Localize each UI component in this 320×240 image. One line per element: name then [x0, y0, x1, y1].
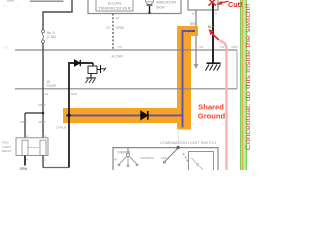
- svg-text:B-CAN: B-CAN: [108, 2, 122, 6]
- svg-text:OFF: OFF: [161, 156, 167, 160]
- svg-text:27: 27: [106, 26, 110, 30]
- svg-text:RELAY: RELAY: [2, 149, 12, 153]
- chassis ground: [206, 63, 221, 70]
- svg-text:TRANSCEIVER: TRANSCEIVER: [98, 6, 132, 10]
- ground wire BLK (to be cut): [212, 4, 214, 63]
- module box bottom edge (cut off, top-left): [30, 0, 64, 2]
- svg-text:HI: HI: [114, 157, 117, 161]
- svg-text:A1: A1: [45, 92, 49, 96]
- combination light switch box: [113, 148, 218, 170]
- junction dot on highlighted wire: [67, 114, 70, 117]
- faint wire from orange end into switch box: [178, 129, 180, 148]
- svg-text:A5: A5: [4, 46, 8, 50]
- svg-text:LIGHT: LIGHT: [2, 145, 11, 149]
- relay branch wires: [24, 113, 26, 138]
- red arrow pointing at cut: [217, 1, 223, 5]
- chassis ground for sub-circuit: [86, 74, 97, 84]
- wire BRN from switch box pin to ground (under orange stub): [195, 10, 197, 65]
- annotation wire black vertical: [69, 63, 93, 168]
- annotation wire: relay to tap (grey part): [43, 167, 69, 169]
- diode D2 on annotation wire: [75, 60, 81, 66]
- svg-text:BLK: BLK: [208, 25, 215, 29]
- svg-text:Y01: Y01: [219, 45, 225, 49]
- svg-text:COMBINATION LIGHT SWITCH: COMBINATION LIGHT SWITCH: [160, 141, 217, 145]
- highlighted wire orange segment A (horizontal): [63, 108, 191, 123]
- svg-text:10: 10: [192, 11, 196, 15]
- svg-text:ORN: ORN: [116, 26, 125, 30]
- junction to relay branch: [42, 112, 45, 115]
- svg-text:GRN: GRN: [20, 167, 28, 170]
- B-CAN transceiver module box (cut off top): [88, 0, 181, 14]
- B-CAN transceiver inner box: [96, 0, 133, 11]
- separator line 2: [15, 88, 237, 90]
- top right box (combination switch connector, cut off): [188, 0, 218, 10]
- svg-text:SIGN: SIGN: [156, 5, 165, 9]
- svg-text:PASSING: PASSING: [141, 156, 155, 160]
- svg-text:18: 18: [116, 16, 120, 20]
- svg-text:MD3: MD3: [232, 45, 239, 49]
- svg-text:N20: N20: [71, 92, 77, 96]
- svg-text:Conceptual, do this inside the: Conceptual, do this inside the switch!!: [245, 3, 250, 150]
- svg-text:Y01: Y01: [198, 45, 204, 49]
- separator line 1: [15, 49, 237, 51]
- svg-text:(7.5A): (7.5A): [47, 35, 56, 39]
- fuse No. 5: [42, 30, 45, 43]
- highlighted wire orange segment C (top stub): [184, 26, 198, 36]
- svg-text:B CAN: B CAN: [112, 55, 124, 59]
- green highlight band: [240, 0, 247, 170]
- sub-circuit module box: [92, 63, 94, 66]
- svg-text:Ground: Ground: [198, 112, 226, 121]
- svg-text:WHT: WHT: [39, 103, 46, 107]
- ground arrow (body ground): [194, 64, 199, 69]
- dimmer switch wiper: [118, 148, 138, 167]
- svg-text:27A/LB: 27A/LB: [56, 125, 66, 129]
- wire GRN to ground: [24, 156, 26, 166]
- frame right edge: [236, 50, 238, 89]
- svg-text:PU/GE: PU/GE: [47, 84, 57, 88]
- svg-text:Cut!: Cut!: [228, 0, 242, 9]
- svg-text:Shared: Shared: [198, 102, 224, 111]
- inner switch box: [189, 152, 214, 172]
- svg-text:C3: C3: [118, 45, 122, 49]
- relay bottom right pin wire: [42, 156, 44, 168]
- contact symbol right of box: [97, 65, 106, 73]
- light switch wiper: [163, 146, 188, 163]
- highlighted wire orange segment B (vertical): [177, 26, 191, 130]
- junction of blue wire with BRN wire: [193, 30, 195, 32]
- leader line pink: [220, 41, 227, 171]
- red arrow pointing at BLK wire: [209, 29, 215, 35]
- svg-text:INDICATOR: INDICATOR: [156, 1, 176, 5]
- orange wire inside green band: [241, 0, 243, 170]
- indicator bulb: [146, 0, 154, 14]
- wire from fuse box top-left: [43, 0, 72, 30]
- dashed wire 27 ORN from transceiver: [112, 14, 114, 50]
- highlighted wire (blue core): [66, 31, 194, 128]
- faint smudge text top-left: [3, 0, 20, 7]
- svg-text:BRN: BRN: [190, 22, 197, 26]
- svg-text:WHT: WHT: [39, 120, 46, 124]
- red X cut mark: [209, 0, 216, 5]
- svg-text:FOG: FOG: [2, 140, 9, 144]
- diode on highlighted wire: [141, 111, 148, 120]
- svg-text:WHT: WHT: [21, 120, 28, 124]
- inner switch contacts: [192, 158, 204, 170]
- fog light relay box: [16, 138, 48, 156]
- wire from fuse down to relay junction: [42, 43, 44, 113]
